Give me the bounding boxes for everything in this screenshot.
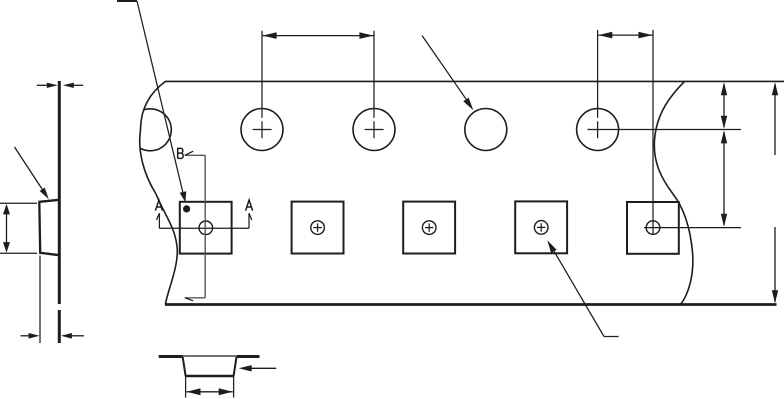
hole-to-cavity offset dimension — [598, 32, 652, 39]
cavity square 4 — [515, 201, 567, 253]
tape top edge — [165, 80, 784, 82]
cavity 4 center circle — [534, 221, 548, 235]
leader arrow to cavity 4 circle — [547, 240, 618, 336]
sprocket hole 2 — [241, 109, 283, 151]
right dimension: hole center to cavity center — [721, 130, 727, 226]
hole 2 center lines — [253, 31, 272, 139]
cavity square 3 — [403, 202, 455, 254]
right dimension: edge to hole center — [721, 82, 727, 128]
sprocket hole pitch dimension — [262, 32, 374, 39]
side view bump height dimension arrow — [3, 204, 10, 253]
cross-section right flange — [237, 355, 260, 358]
cross-section width dimension — [187, 388, 233, 395]
cavity 3 center circle — [422, 221, 436, 235]
side view bump height extension lines — [0, 203, 37, 253]
cavity square 2 — [292, 202, 344, 254]
sprocket hole 1 (partial, at break) — [129, 109, 171, 151]
section A-A cut line — [157, 213, 252, 228]
side view bottom depth dimension — [21, 333, 85, 339]
left break curve — [140, 81, 178, 304]
cross-section cavity bottom — [185, 375, 235, 377]
right break curve — [654, 81, 693, 304]
cross-section left wall — [183, 357, 186, 376]
side view bump face extension line — [39, 256, 41, 344]
tape bottom edge — [165, 303, 777, 306]
hole 5 center lines — [588, 30, 742, 138]
side view leader arrow to bump corner — [15, 147, 49, 199]
section B cut line — [185, 155, 205, 297]
hole 3 center lines — [365, 31, 384, 139]
cavity 1 center circle — [199, 221, 213, 235]
label A left — [155, 200, 162, 211]
leader arrow to hole 4 — [422, 36, 473, 111]
cavity 5 center circle — [646, 221, 660, 235]
cavity square 5 — [627, 202, 679, 254]
top-left label bar — [117, 0, 137, 2]
label B — [178, 148, 183, 158]
cavity 2 center circle — [311, 221, 325, 235]
cross-section left flange — [159, 355, 183, 358]
right dimension: full tape width — [772, 82, 778, 303]
section B arrows — [185, 151, 193, 301]
cross-section opening line — [183, 355, 237, 357]
extension line at x=653 to cavity 5 center — [652, 30, 654, 235]
leader line from label to datum dot — [137, 1, 186, 202]
cross-section extension lines — [186, 377, 234, 398]
cross-section wall leader arrow — [239, 365, 277, 371]
cavity square 1 — [180, 202, 232, 254]
sprocket hole 3 — [353, 109, 395, 151]
sprocket hole 5 — [577, 109, 619, 151]
side view tape edge (thick vertical line) — [58, 81, 61, 343]
datum dot B — [183, 205, 190, 212]
label A right — [246, 200, 253, 211]
side view tape thickness dimension — [37, 83, 83, 88]
side view embossment bump profile — [39, 200, 59, 255]
cross-section right wall — [234, 357, 237, 376]
sprocket hole 4 (plain) — [465, 109, 507, 151]
